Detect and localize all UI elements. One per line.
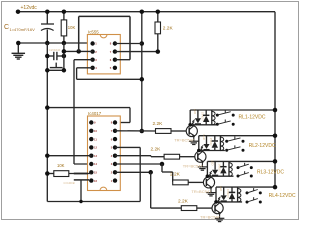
- svg-text:2.2K: 2.2K: [163, 26, 174, 32]
- svg-text:1N4007: 1N4007: [209, 138, 212, 147]
- svg-text:14: 14: [94, 162, 97, 166]
- svg-text:1N4007: 1N4007: [218, 163, 221, 172]
- svg-text:1N4007: 1N4007: [226, 189, 229, 198]
- svg-text:LED: LED: [202, 135, 206, 140]
- svg-text:TR=BC547: TR=BC547: [191, 189, 212, 194]
- svg-text:Ic4017: Ic4017: [88, 111, 102, 116]
- svg-text:LED: LED: [219, 186, 223, 191]
- svg-text:2.2K: 2.2K: [151, 147, 162, 153]
- svg-text:1=470mF/16V: 1=470mF/16V: [10, 27, 36, 32]
- svg-text:RL3-12VDC: RL3-12VDC: [257, 170, 284, 176]
- svg-text:C2=10nF: C2=10nF: [49, 48, 61, 52]
- svg-text:1N4007: 1N4007: [200, 112, 203, 121]
- svg-text:LED: LED: [193, 109, 197, 114]
- svg-text:10: 10: [94, 129, 97, 133]
- svg-text:2.2K: 2.2K: [178, 199, 189, 205]
- svg-text:16: 16: [94, 179, 97, 183]
- svg-text:10K: 10K: [57, 163, 65, 168]
- svg-text:13: 13: [94, 154, 97, 158]
- svg-text:RL1-12VDC: RL1-12VDC: [239, 115, 266, 121]
- svg-text:TR=BC547: TR=BC547: [183, 163, 204, 168]
- svg-text:10K: 10K: [68, 25, 76, 30]
- svg-text:12: 12: [94, 146, 97, 150]
- svg-text:TR=BC547: TR=BC547: [200, 215, 221, 220]
- svg-text:LED: LED: [210, 160, 214, 165]
- svg-text:TR=BC547: TR=BC547: [174, 138, 195, 143]
- svg-text:+12vdc: +12vdc: [21, 5, 38, 11]
- svg-text:Ic555: Ic555: [88, 29, 99, 34]
- svg-text:15: 15: [94, 171, 97, 175]
- svg-text:RL4-12VDC: RL4-12VDC: [269, 193, 296, 199]
- svg-text:2.2K: 2.2K: [170, 171, 181, 177]
- svg-text:2.2K: 2.2K: [153, 121, 164, 127]
- svg-text:RL2-12VDC: RL2-12VDC: [249, 143, 276, 149]
- svg-text:C: C: [4, 24, 9, 31]
- svg-text:C=100nF: C=100nF: [64, 181, 76, 185]
